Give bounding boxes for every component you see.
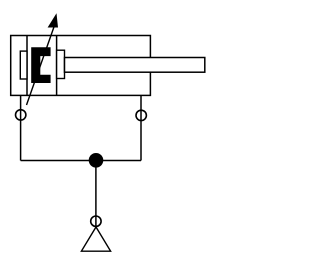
piston right disc line — [56, 36, 58, 96]
cylinder barrel (body of pneumatic cylinder) — [11, 36, 151, 96]
wire left port down — [20, 95, 22, 160]
wire junction down to exhaust — [95, 161, 97, 228]
cushioning boss right — [57, 50, 65, 78]
cushioning boss left — [20, 51, 27, 79]
connection circle exhaust — [91, 216, 101, 226]
wire horizontal joining ports — [21, 160, 141, 162]
connection circle left port — [16, 110, 26, 120]
magnet symbol on piston (black C) — [31, 47, 50, 83]
junction node (filled) — [89, 153, 104, 168]
connection circle right port — [136, 110, 146, 120]
exhaust triangle — [81, 227, 110, 251]
adjustability arrow shaft — [27, 24, 56, 105]
piston left disc line — [26, 36, 28, 96]
wire right port down — [140, 95, 142, 160]
adjustability arrow head — [48, 13, 58, 27]
piston rod — [65, 58, 205, 73]
